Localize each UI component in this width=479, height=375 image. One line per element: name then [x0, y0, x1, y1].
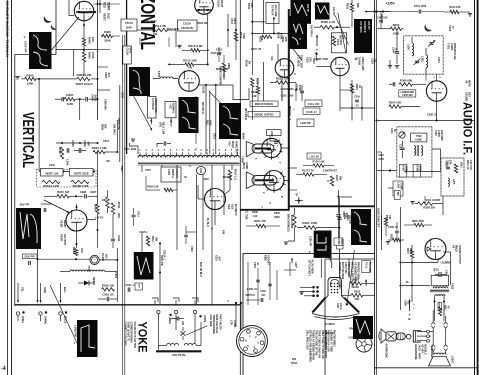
- svg-text:C515 .0039: C515 .0039: [124, 148, 137, 151]
- node v6 grid arrow: [427, 247, 431, 251]
- wire k small: [284, 262, 296, 276]
- svg-text:BLU: BLU: [63, 287, 67, 292]
- svg-text:140V: 140V: [445, 261, 451, 265]
- wire y285 link: [401, 281, 431, 286]
- svg-text:R917: R917: [120, 166, 123, 172]
- svg-text:T901: T901: [114, 272, 118, 279]
- svg-text:INDUCTANCE: INDUCTANCE: [255, 102, 273, 106]
- node C314 1000: [295, 84, 302, 91]
- svg-text:B: B: [280, 196, 283, 198]
- svg-text:470K: 470K: [209, 120, 212, 126]
- svg-text:100K: 100K: [393, 32, 400, 36]
- svg-text:YOKE LEADS TO: YOKE LEADS TO: [127, 322, 130, 342]
- svg-text:JACK - PART: JACK - PART: [417, 344, 420, 360]
- svg-text:VERTICAL: VERTICAL: [19, 112, 36, 168]
- node yoke dot red: [168, 314, 172, 324]
- svg-text:C507 .05: C507 .05: [251, 48, 262, 51]
- svg-text:C11B .01: C11B .01: [306, 111, 317, 114]
- node i crt note: [291, 358, 298, 365]
- wire plate drop: [83, 16, 85, 38]
- resistor R903: [82, 52, 95, 62]
- svg-text:DET: DET: [468, 92, 472, 98]
- svg-text:+: +: [289, 118, 291, 122]
- svg-text:C204: C204: [253, 262, 256, 268]
- node earphone sleeve: [396, 333, 405, 340]
- wire right page edge rule: [477, 0, 479, 375]
- svg-text:R524: R524: [255, 78, 259, 85]
- svg-text:36K: 36K: [104, 124, 107, 129]
- resistor R524: [251, 78, 260, 87]
- node misc values 1: [144, 20, 180, 31]
- wire x37.5 drop: [36, 248, 38, 303]
- svg-text:R312: R312: [459, 162, 461, 168]
- wire x160 drop: [159, 242, 165, 305]
- svg-text:39K: 39K: [250, 3, 253, 8]
- wire audio column divider A: [374, 0, 376, 375]
- svg-text:AS VIEWED FROM: AS VIEWED FROM: [353, 262, 356, 283]
- svg-text:LOOKING AT TUBE: LOOKING AT TUBE: [330, 330, 333, 352]
- svg-text:-4: -4: [1, 366, 6, 372]
- svg-text:THE OUTSIDE OF THE: THE OUTSIDE OF THE: [315, 330, 318, 356]
- svg-text:C911: C911: [117, 235, 121, 242]
- node C316 labels: [280, 87, 294, 98]
- wire vr box outline: [39, 170, 95, 172]
- svg-text:C306 330: C306 330: [402, 94, 413, 97]
- node 20V PP box: [23, 254, 38, 265]
- svg-text:+135V: +135V: [385, 2, 395, 6]
- wire plug feeds: [227, 299, 242, 329]
- node T302 box label: [411, 133, 427, 142]
- capacitor T301 trimmer: [428, 40, 436, 47]
- svg-text:R907: R907: [66, 93, 74, 97]
- wire b vertical drops: [140, 38, 169, 48]
- node boxed L550: [334, 238, 343, 246]
- svg-text:10GN8: 10GN8: [358, 57, 361, 66]
- svg-text:C902: C902: [49, 164, 55, 167]
- wire yoke feed grn: [39, 283, 47, 303]
- tube V13B vert output: [66, 210, 87, 231]
- wire bus x206: [205, 85, 207, 154]
- resistor R303 crt: [342, 289, 375, 301]
- svg-text:R310 100K: R310 100K: [290, 215, 294, 229]
- capacitor C911: [111, 214, 121, 248]
- waveform photo 175V PP: [29, 32, 52, 69]
- resistor R510: [234, 32, 245, 41]
- wire h misc: [377, 169, 397, 171]
- svg-text:KINE: KINE: [263, 255, 266, 261]
- node c-quad top text: [247, 3, 263, 41]
- node boxed C11B: [303, 108, 320, 114]
- svg-text:3.3K: 3.3K: [251, 95, 256, 98]
- svg-text:V15A: V15A: [217, 0, 221, 8]
- wire x381 riser: [381, 190, 383, 250]
- node crt label: [336, 303, 343, 310]
- svg-text:R505 8.2K: R505 8.2K: [147, 185, 159, 188]
- wire sync section divider: [239, 0, 241, 375]
- svg-text:V13: V13: [103, 2, 107, 8]
- svg-text:C514: C514: [212, 133, 215, 139]
- svg-text:R919 150: R919 150: [102, 283, 115, 287]
- svg-text:R607: R607: [406, 248, 409, 255]
- node V13A label: [103, 2, 111, 21]
- svg-text:R915 1M: R915 1M: [57, 190, 69, 194]
- resistor R517: [225, 169, 237, 194]
- wire bus x123: [121, 35, 123, 375]
- crt neck: [328, 278, 342, 297]
- crt funnel band left: [312, 298, 325, 313]
- node +117V: [87, 216, 104, 220]
- svg-text:~: ~: [94, 258, 96, 262]
- svg-text:C510: C510: [216, 49, 223, 52]
- svg-text:C515-1: C515-1: [139, 231, 148, 234]
- node dashed box2: [441, 158, 464, 196]
- node boxed C11A: [305, 100, 322, 106]
- svg-text:150: 150: [80, 248, 84, 253]
- resistor R910: [92, 146, 119, 154]
- node label T508: [240, 156, 244, 163]
- svg-text:(RED): (RED): [168, 317, 171, 324]
- svg-text:L115 .68: L115 .68: [309, 156, 319, 159]
- waveform photo agc top b: [315, 3, 335, 20]
- svg-text:R611: R611: [443, 305, 446, 311]
- node TP cross: [294, 193, 303, 204]
- node label YOKE: [136, 322, 150, 353]
- svg-text:(GRN): (GRN): [203, 315, 206, 322]
- svg-text:68K: 68K: [356, 3, 360, 8]
- svg-text:130V PP: 130V PP: [308, 236, 312, 247]
- svg-text:1K: 1K: [247, 61, 251, 64]
- inductor T301 pri: [412, 37, 414, 56]
- svg-text:POSITION OF LOW: POSITION OF LOW: [326, 330, 329, 352]
- svg-text:C905: C905: [71, 140, 75, 147]
- svg-text:175V PP: 175V PP: [24, 41, 28, 52]
- inductor yoke coil R: [184, 322, 201, 346]
- svg-text:6EM7: 6EM7: [107, 2, 111, 11]
- svg-text:SE901: SE901: [92, 277, 96, 286]
- node yoke plug pin 1: [157, 310, 160, 350]
- wire v6 plate: [443, 252, 451, 285]
- node misc values 5: [124, 148, 198, 234]
- svg-text:1000: 1000: [298, 85, 302, 91]
- wire audio b+ y120: [376, 119, 475, 121]
- wire discrim right: [432, 149, 441, 172]
- connector spinner: [356, 336, 372, 352]
- svg-text:R912: R912: [58, 147, 62, 154]
- resistor R523 68K: [346, 0, 360, 27]
- svg-text:YEL: YEL: [21, 287, 25, 292]
- svg-text:22K: 22K: [355, 297, 360, 301]
- node V15 horiz out label: [227, 141, 237, 155]
- wire vertical section frame top edge: [15, 54, 56, 56]
- capacitor C523: [171, 317, 184, 326]
- svg-text:88V PP H: 88V PP H: [201, 102, 205, 114]
- svg-text:C301 1500: C301 1500: [414, 5, 427, 8]
- tube V12 noise gate: [331, 57, 349, 75]
- wire sync misc 2: [282, 76, 340, 111]
- node l labels: [403, 300, 409, 306]
- svg-text:R301 150K: R301 150K: [302, 221, 318, 225]
- node dashed T302 box: [397, 127, 432, 177]
- node earphone body: [386, 332, 396, 341]
- svg-text:R309: R309: [252, 211, 258, 214]
- wire yoke section divider: [15, 304, 241, 306]
- resistor R308 680: [389, 78, 426, 86]
- node page number -4: [1, 366, 6, 372]
- svg-text:10K: 10K: [91, 37, 95, 42]
- wire t901 bus: [116, 120, 118, 152]
- inductor T302 coils: [414, 145, 423, 156]
- resistor R906 330K: [101, 30, 120, 43]
- svg-text:SPEAKER: SPEAKER: [430, 346, 433, 358]
- node boxed L300: [337, 240, 344, 250]
- svg-text:R914: R914: [93, 204, 97, 211]
- svg-text:T302: T302: [434, 130, 437, 136]
- svg-text:C519: C519: [214, 255, 217, 261]
- wire pot drop x39: [38, 79, 40, 172]
- svg-text:R509 1M: R509 1M: [197, 21, 208, 25]
- svg-text:30K: 30K: [117, 213, 121, 218]
- svg-text:10K: 10K: [388, 215, 391, 220]
- node boxed TO PIX IF: [266, 3, 279, 24]
- svg-text:C517A: C517A: [125, 21, 133, 25]
- wire right page border: [474, 0, 476, 375]
- node label 130V PP: [308, 236, 312, 254]
- wire r903 down: [83, 62, 85, 76]
- svg-text:BRIGHTNESS: BRIGHTNESS: [287, 214, 291, 232]
- diode SE901: [78, 277, 96, 286]
- svg-text:36K R913: 36K R913: [112, 124, 115, 135]
- svg-text:CORRESPONDING: CORRESPONDING: [130, 322, 133, 344]
- svg-text:270K: 270K: [91, 52, 95, 59]
- tube V8 sound det: [426, 81, 446, 101]
- wire callout w7b: [338, 13, 346, 53]
- svg-text:V15: V15: [227, 141, 231, 146]
- wire flyback drops: [142, 165, 232, 305]
- capacitor C522 stadium: [197, 167, 206, 175]
- wire mid link: [83, 46, 85, 52]
- transformer T602 pri: [433, 287, 448, 289]
- node hook stub 1: [152, 298, 158, 305]
- wire v13b bottom: [75, 231, 77, 248]
- waveform photo boost: [134, 252, 154, 280]
- svg-text:C520: C520: [190, 246, 193, 252]
- resistor R611 47: [438, 305, 449, 316]
- node V15A label: [217, 0, 225, 8]
- node h labels top: [380, 14, 438, 134]
- potentiometer VERT LIN: [41, 169, 64, 188]
- svg-text:20V PP: 20V PP: [24, 255, 34, 259]
- wire grid feed L: [69, 0, 74, 16]
- svg-text:SOUND IF: SOUND IF: [363, 21, 366, 33]
- resistor R302 crt: [350, 278, 375, 290]
- wire left page margin rule B: [11, 0, 13, 375]
- svg-text:10K: 10K: [102, 198, 107, 202]
- svg-text:R515 12K: R515 12K: [183, 58, 197, 62]
- node yoke dot grn: [199, 315, 206, 322]
- svg-text:C512 .0047: C512 .0047: [144, 20, 158, 23]
- svg-text:C313: C313: [398, 144, 401, 150]
- wire long diag callout: [346, 250, 355, 306]
- node dashed pots box: [37, 170, 97, 188]
- wire stub y90: [98, 89, 111, 91]
- wire callout to V13A: [52, 17, 80, 50]
- svg-text:LTR: LTR: [229, 320, 232, 325]
- wire lamp out: [99, 259, 118, 261]
- wire callout to V13B: [44, 200, 70, 213]
- svg-text:DISCRIM: DISCRIM: [440, 130, 443, 141]
- wire jack to speaker: [429, 332, 433, 337]
- node boxed top right: [394, 191, 400, 200]
- svg-text:3KV PP H: 3KV PP H: [244, 108, 248, 120]
- svg-text:R512: R512: [151, 236, 154, 242]
- ground R905: [15, 77, 24, 80]
- wire c bus stubs: [282, 90, 352, 101]
- wire damper links: [281, 147, 290, 182]
- inductor L503: [153, 71, 178, 79]
- svg-text:C304: C304: [391, 47, 394, 54]
- svg-text:R304 10K: R304 10K: [389, 101, 402, 105]
- wire callout w6: [293, 49, 302, 60]
- svg-text:TUBES AS VIEWED FROM: TUBES AS VIEWED FROM: [312, 330, 315, 360]
- svg-text:C906: C906: [83, 140, 87, 147]
- wire h bottom stubs: [382, 215, 433, 240]
- svg-text:R314 10K: R314 10K: [449, 6, 460, 9]
- waveform photo crt drive: [314, 231, 332, 258]
- node V5 video label: [354, 57, 364, 71]
- node misc j2: [253, 255, 293, 268]
- node notes text block B: [338, 262, 350, 289]
- potentiometer R309 2M: [418, 196, 436, 209]
- node kine caps: [256, 280, 272, 297]
- resistor R301 150K: [297, 221, 341, 229]
- ground crt: [299, 292, 303, 295]
- capacitor C604: [432, 268, 447, 277]
- node g labels: [254, 158, 283, 198]
- resistor R907: [64, 93, 75, 106]
- node b-quad top labels: [197, 18, 236, 25]
- node connector chevrons lower: [431, 345, 448, 351]
- node crt socket dots: [312, 286, 319, 297]
- node trimmer box L: [267, 130, 282, 144]
- resistor R313: [388, 234, 401, 242]
- svg-text:R517 1.2: R517 1.2: [233, 169, 237, 180]
- svg-text:C907: C907: [103, 140, 110, 143]
- crt funnel left: [314, 296, 328, 312]
- node h labels 2: [378, 154, 385, 161]
- waveform photo 1300V PP: [77, 320, 98, 357]
- wire j mid labels: [184, 226, 224, 252]
- node connector chevrons upper: [431, 322, 448, 328]
- svg-text:90V PP: 90V PP: [20, 203, 30, 207]
- svg-text:C512A: C512A: [183, 22, 191, 26]
- svg-text:470K: 470K: [242, 33, 245, 39]
- node label headphone jack: [414, 344, 426, 360]
- svg-text:C302: C302: [448, 25, 451, 32]
- svg-text:4DT6: 4DT6: [468, 80, 472, 87]
- wire y21.8: [252, 21, 263, 23]
- wire v12 feed: [315, 52, 331, 67]
- wire picture tube box left: [242, 253, 244, 375]
- node C909 6KV label: [120, 92, 131, 99]
- wire kine rails: [248, 262, 277, 305]
- svg-text:WITH SHORTEST: WITH SHORTEST: [323, 330, 326, 350]
- node V13B label: [59, 220, 67, 246]
- svg-text:10K: 10K: [284, 37, 288, 42]
- svg-text:HEADPHONE: HEADPHONE: [414, 344, 417, 360]
- capacitor C513: [132, 208, 140, 226]
- svg-text:PIN 5: PIN 5: [349, 329, 355, 331]
- svg-text:L503: L503: [157, 71, 161, 78]
- svg-text:R916: R916: [72, 247, 76, 254]
- node b+ feed sync: [316, 35, 319, 57]
- wire bus x100: [99, 0, 101, 13]
- wire g right stub: [288, 189, 297, 191]
- svg-text:R916B 3.5M: R916B 3.5M: [73, 184, 89, 188]
- node crt socket note: [307, 260, 313, 277]
- svg-text:C520: C520: [342, 211, 345, 217]
- node yoke plug pin 3: [193, 310, 196, 343]
- svg-text:6FQ7: 6FQ7: [220, 0, 224, 8]
- wire y197 link: [339, 196, 353, 198]
- speaker earphone cone: [379, 329, 386, 343]
- svg-text:#51: #51: [104, 254, 108, 259]
- svg-text:400V: 400V: [129, 48, 132, 54]
- inductor yoke coil L: [158, 344, 178, 346]
- potentiometer R125: [328, 175, 342, 186]
- wire f mid extra: [146, 176, 177, 192]
- svg-text:V: V: [24, 35, 26, 39]
- svg-text:R309 2M: R309 2M: [423, 205, 435, 209]
- wire v8 cathode: [430, 101, 437, 120]
- speaker LS601: [429, 351, 451, 366]
- svg-text:417 PROD: 417 PROD: [151, 98, 154, 110]
- waveform photo horiz out: [219, 103, 241, 139]
- svg-text:TRAP: TRAP: [291, 362, 298, 365]
- wire v16 left: [198, 185, 205, 199]
- node misc values 8: [246, 219, 280, 228]
- svg-text:V11: V11: [270, 56, 274, 61]
- wire jack contacts: [417, 330, 429, 342]
- ground vol: [410, 202, 417, 205]
- svg-text:C309: C309: [406, 44, 409, 50]
- svg-text:VERT SIZE: VERT SIZE: [74, 171, 89, 175]
- wire v8 pins: [433, 74, 441, 81]
- svg-text:10K: 10K: [260, 36, 263, 41]
- node boxed note 417: [148, 97, 157, 125]
- resistor R914: [93, 152, 99, 248]
- wire audio column divider B: [376, 0, 378, 375]
- svg-text:1W: 1W: [188, 66, 192, 70]
- node notes box border: [325, 259, 375, 375]
- node label 3KV PP: [244, 108, 248, 120]
- node R519 vert text: [276, 32, 283, 60]
- svg-text:CONNECT COLORED: CONNECT COLORED: [123, 322, 126, 347]
- svg-text:C512B 2W: C512B 2W: [181, 27, 193, 30]
- node label SPEAKER: [430, 346, 433, 358]
- node misc values 6: [49, 160, 110, 167]
- svg-text:TO PIX IF: TO PIX IF: [270, 5, 273, 17]
- resistor R126 5.6K: [303, 161, 334, 168]
- node grid box: [331, 33, 346, 53]
- wire sync bus x252: [251, 0, 253, 75]
- wire y85 link: [199, 84, 233, 86]
- node +B feed audio: [408, 299, 415, 321]
- resistor R302 100K: [377, 23, 404, 36]
- svg-text:V13B: V13B: [60, 220, 64, 227]
- svg-text:10%: 10%: [449, 160, 451, 165]
- resistor R515 12K: [168, 58, 208, 69]
- crt gun dome: [331, 280, 340, 288]
